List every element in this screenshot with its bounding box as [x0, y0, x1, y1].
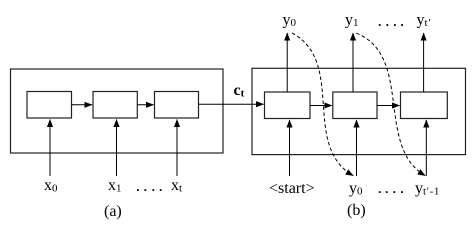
input arrow y0 bottom: [356, 120, 358, 176]
decoder cell D2: [333, 92, 377, 119]
wire ct: encoder E3 to decoder D1 arrow: [199, 103, 264, 105]
svg-text:x0: x0: [44, 177, 58, 195]
svg-text:(b): (b): [347, 202, 366, 219]
input arrow x0: [49, 120, 51, 177]
encoder cell E1: [27, 92, 72, 119]
svg-text:x1: x1: [108, 177, 122, 195]
svg-text:yt′: yt′: [417, 12, 431, 30]
wire D1 to D2 arrow: [310, 105, 332, 107]
input arrow x1: [116, 120, 118, 177]
svg-text:(a): (a): [104, 203, 122, 220]
svg-text:ct: ct: [234, 82, 245, 100]
dots bottom: [379, 191, 403, 193]
feedback dashed curve y1 to next input: [356, 33, 425, 175]
output arrow y0: [286, 33, 288, 92]
svg-text:y0: y0: [349, 180, 363, 198]
input arrow xt: [176, 120, 178, 177]
dots between x1 and xt: [137, 189, 162, 191]
decoder outer box (b): [252, 68, 466, 154]
input arrow start: [289, 120, 291, 176]
input arrow yt'-1: [425, 120, 427, 176]
encoder cell E2: [93, 92, 137, 119]
wire D2 to D3 arrow: [377, 105, 400, 107]
dots top: [379, 24, 403, 26]
svg-text:y1: y1: [345, 12, 359, 30]
decoder cell D1: [265, 92, 311, 119]
svg-text:yt′-1: yt′-1: [415, 180, 440, 198]
wire E1 to E2 arrow: [72, 104, 93, 106]
encoder outer box (a): [11, 69, 224, 153]
decoder cell D3: [401, 92, 448, 119]
wire E2 to E3 arrow: [137, 104, 153, 106]
output arrow yt': [423, 33, 425, 92]
svg-text:y0: y0: [283, 12, 297, 30]
svg-text:<start>: <start>: [269, 180, 315, 197]
feedback dashed curve y0 to next input: [292, 33, 353, 176]
svg-text:xt: xt: [171, 177, 182, 195]
output arrow y1: [352, 33, 354, 92]
encoder cell E3: [155, 92, 199, 119]
